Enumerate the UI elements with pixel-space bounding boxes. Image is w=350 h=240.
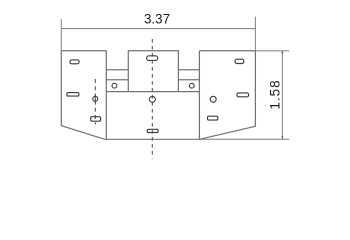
dimension line 1.58 bbox=[281, 51, 283, 140]
hole in right flange bbox=[210, 96, 216, 102]
arrowhead bottom of 1.58 bbox=[281, 136, 283, 139]
part bottom edge bbox=[105, 138, 200, 140]
left flange right edge (bend line x=106.3) bbox=[105, 51, 107, 140]
hole in left flange bbox=[93, 96, 98, 101]
right neck top line bbox=[178, 69, 199, 71]
right neck bend line bbox=[178, 79, 199, 81]
arrowhead top of 1.58 bbox=[281, 51, 283, 54]
svg-text:1.58: 1.58 bbox=[267, 79, 282, 109]
dimension line 3.37 bbox=[61, 28, 255, 30]
right flange outline bbox=[199, 51, 255, 140]
slotB mid of right flange bbox=[237, 93, 249, 97]
slot3 bottom of left flange bbox=[91, 117, 101, 122]
left neck bend line bbox=[106, 79, 128, 81]
slotC lower of right flange bbox=[208, 116, 218, 120]
hole below center tab bbox=[149, 96, 155, 102]
hole in right neck bbox=[189, 83, 194, 88]
slot2 mid of left flange bbox=[67, 93, 79, 97]
svg-text:3.37: 3.37 bbox=[144, 12, 170, 27]
centerline of left flange (dashed) bbox=[94, 79, 96, 125]
extension line left (x=61.3 above part) bbox=[60, 19, 62, 51]
centerline of center tab (dashed) bbox=[151, 39, 153, 159]
slot top of center tab bbox=[147, 56, 158, 61]
slotA top of right flange bbox=[235, 59, 244, 63]
extension line right (x=255.4 above part) bbox=[254, 17, 256, 51]
base bend line across center bbox=[106, 91, 199, 93]
extension line bottom for 1.58 (collinear with part bottom edge) bbox=[199, 138, 289, 140]
left flange outline bbox=[61, 51, 106, 140]
right flange left edge (bend line x=199.4) bbox=[198, 51, 200, 140]
extension line top for 1.58 bbox=[255, 50, 289, 52]
hole in left neck bbox=[112, 83, 117, 88]
slot1 top of left flange bbox=[70, 60, 79, 64]
center tab outline bbox=[128, 51, 178, 92]
slot bottom center bbox=[147, 129, 158, 132]
left neck top line bbox=[106, 69, 128, 71]
centerline segment through left hole bbox=[94, 95, 96, 103]
